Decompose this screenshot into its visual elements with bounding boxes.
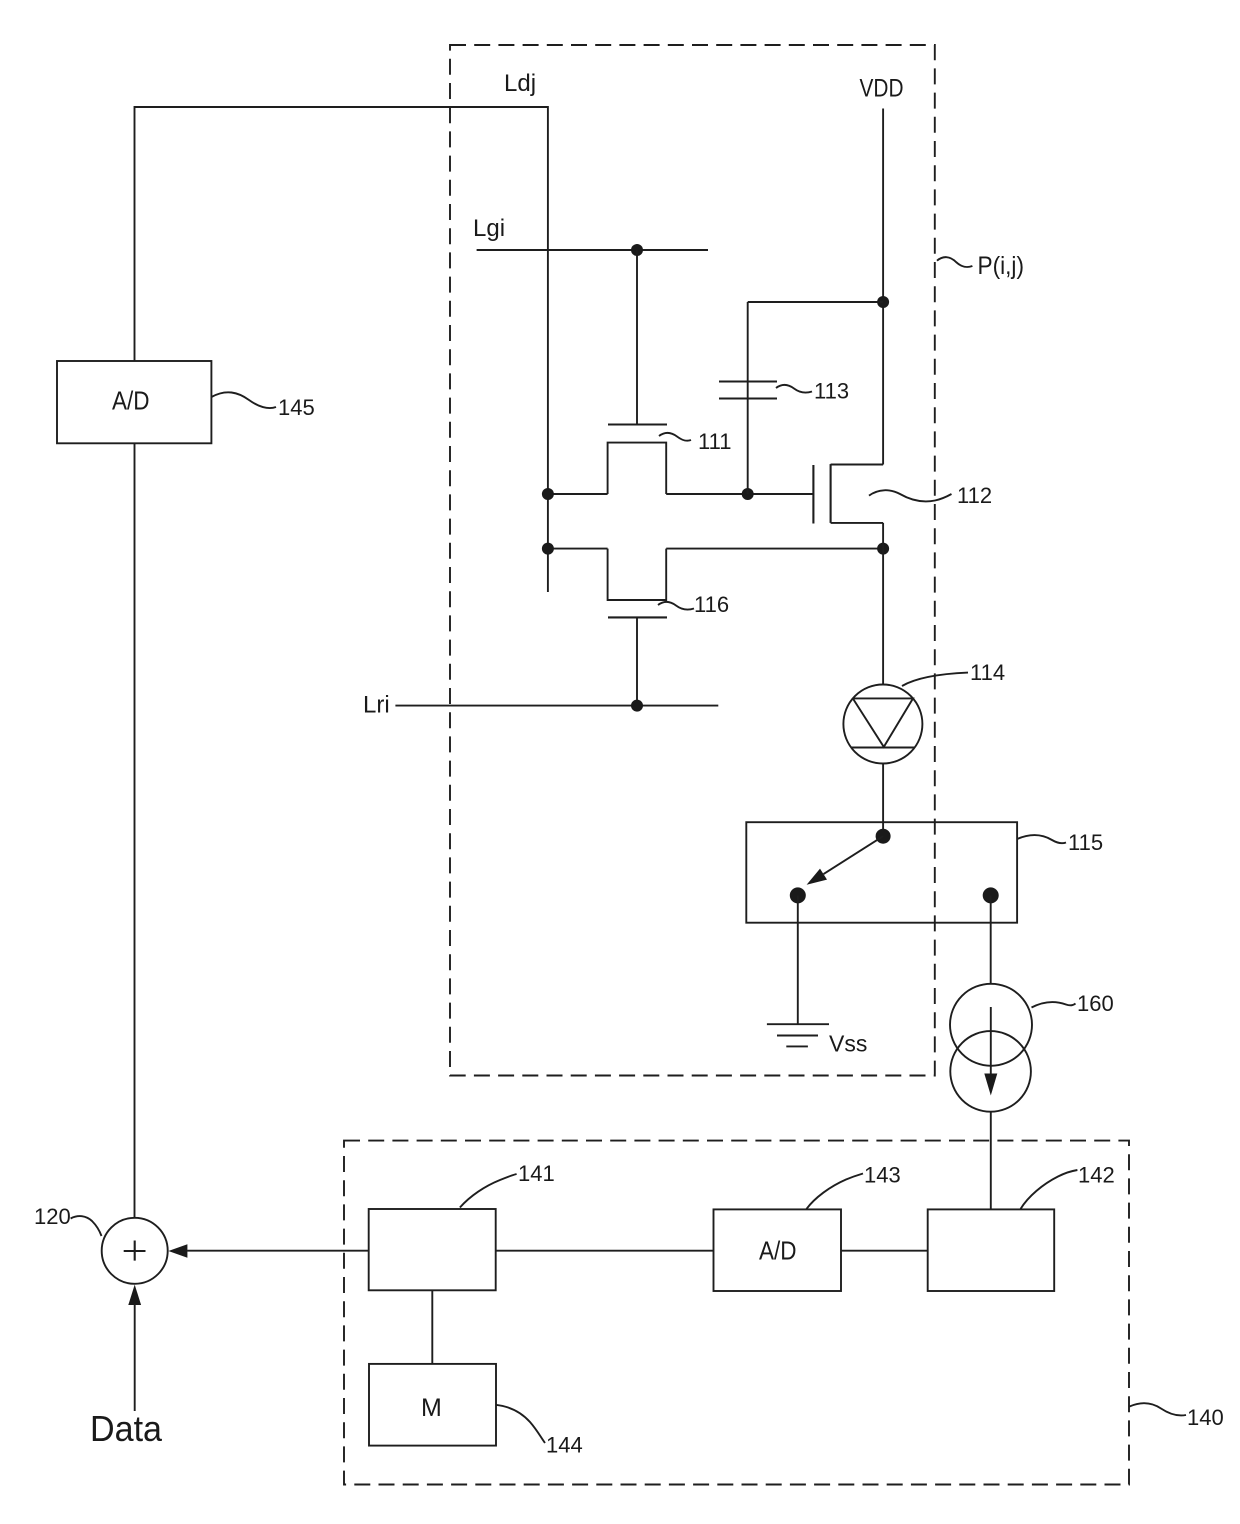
label 142 (1021, 1163, 1115, 1209)
label 140 (1130, 1403, 1224, 1430)
label 144 (496, 1405, 583, 1458)
wire: Lgi scan line (477, 249, 708, 251)
A/D converter 143 box (714, 1209, 842, 1291)
wire: T112 source to OLED (882, 549, 884, 685)
switch arm arrowhead (807, 869, 827, 885)
svg-text:140: 140 (1187, 1405, 1224, 1430)
wire: Data input (134, 1304, 136, 1411)
wire: VDD rail vertical (882, 109, 884, 465)
label 113 (776, 379, 849, 404)
transistor Q112 gate bar (812, 465, 814, 524)
current source I160 circles (950, 984, 1032, 1112)
ground Vss symbol (767, 1024, 829, 1046)
svg-text:111: 111 (698, 429, 731, 454)
junction dot Lri/gate (631, 700, 643, 712)
svg-text:Lri: Lri (363, 692, 390, 719)
wire: node between T116 and T112 source (548, 548, 883, 550)
junction dot T112 source node (877, 543, 889, 555)
junction dot cap bottom (742, 488, 754, 500)
switch arm (824, 836, 884, 874)
wire: Lri reset line (395, 705, 718, 707)
capacitor C113 plates (719, 382, 777, 399)
label 143 (807, 1163, 901, 1209)
wire: switch left to ground (797, 895, 799, 1024)
switch right contact dot (983, 887, 999, 903)
label 111 (659, 429, 731, 454)
svg-text:115: 115 (1068, 830, 1103, 855)
svg-text:A/D: A/D (112, 386, 150, 416)
svg-text:P(i,j): P(i,j) (978, 252, 1025, 280)
label 141 (460, 1161, 555, 1208)
wire: T112 drain lead (831, 464, 884, 466)
junction dot VDD/cap branch (877, 296, 889, 308)
svg-text:145: 145 (278, 395, 315, 420)
transistor Q116 gate bar (608, 616, 667, 618)
wire: gate lead of T116 (636, 617, 638, 705)
wire: T111 source lead (548, 493, 608, 495)
current source arrowhead (984, 1074, 997, 1096)
junction dot Lgi/gate (631, 244, 643, 256)
wire: Ldj vertical line (547, 106, 549, 592)
wire: switch right to current source (990, 895, 992, 984)
wire: 141 to adder (187, 1250, 369, 1252)
adder plus sign (124, 1241, 146, 1261)
svg-text:113: 113 (814, 379, 849, 404)
label 114 (902, 660, 1005, 686)
current source arrow stem (990, 1007, 992, 1074)
OLED D114 circle (843, 685, 922, 764)
switch common dot (876, 829, 891, 844)
wire: top feedback horizontal (135, 106, 548, 108)
adder input arrowhead from right (168, 1244, 187, 1257)
svg-text:Lgi: Lgi (473, 215, 505, 242)
compensation dashed box 140 (344, 1141, 1129, 1485)
wire: capacitor top branch (748, 302, 883, 494)
svg-text:160: 160 (1077, 991, 1114, 1016)
label 160 (1032, 991, 1114, 1016)
pixel dashed box P(i,j) (450, 45, 935, 1076)
switch left contact dot (790, 887, 806, 903)
block 142 box (928, 1209, 1054, 1291)
wire: T111 drain to T112 gate (666, 493, 813, 495)
label 120 (34, 1204, 102, 1236)
wire: current source to block 142 (990, 1112, 992, 1210)
junction dot Ldj/T116 (542, 543, 554, 555)
label 115 (1017, 830, 1103, 855)
adder 120 circle (102, 1218, 168, 1284)
svg-text:114: 114 (970, 660, 1005, 685)
node label P(i,j) (937, 252, 1024, 280)
label 145 (211, 392, 314, 420)
A/D converter U145 box (57, 361, 211, 443)
OLED D114 triangle (851, 698, 914, 747)
wire: feedback vertical lower (134, 443, 136, 1218)
transistor Q111 gate bar (608, 423, 667, 425)
label 112 (869, 483, 992, 508)
label 116 (658, 592, 729, 617)
svg-text:112: 112 (957, 483, 992, 508)
svg-text:142: 142 (1078, 1163, 1115, 1188)
svg-text:120: 120 (34, 1204, 71, 1229)
switch box SW115 (746, 822, 1017, 923)
transistor Q112 channel bar (830, 464, 832, 523)
svg-text:A/D: A/D (759, 1236, 797, 1266)
transistor Q116 body (608, 549, 667, 600)
svg-text:Ldj: Ldj (504, 70, 536, 97)
junction dot Ldj/T111 (542, 488, 554, 500)
svg-text:M: M (421, 1394, 442, 1422)
memory M144 box (369, 1364, 496, 1446)
wire: 141 to M (431, 1290, 433, 1364)
svg-text:Vss: Vss (829, 1031, 867, 1057)
svg-text:143: 143 (864, 1163, 901, 1188)
adder input arrowhead from below (128, 1285, 141, 1305)
wire: 142 to 143 (841, 1250, 928, 1252)
wire: OLED cathode to switch (882, 764, 884, 837)
svg-text:116: 116 (694, 592, 729, 617)
wire: feedback vertical upper (134, 106, 136, 361)
svg-text:Data: Data (90, 1408, 163, 1449)
svg-text:144: 144 (546, 1433, 583, 1458)
wire: T112 source lead (831, 523, 884, 549)
wire: 143 to 141 (496, 1250, 714, 1252)
svg-text:141: 141 (518, 1161, 555, 1186)
svg-text:VDD: VDD (860, 75, 904, 103)
wire: gate lead of T111 (636, 250, 638, 425)
block 141 box (369, 1209, 496, 1290)
transistor Q111 body (608, 443, 667, 494)
